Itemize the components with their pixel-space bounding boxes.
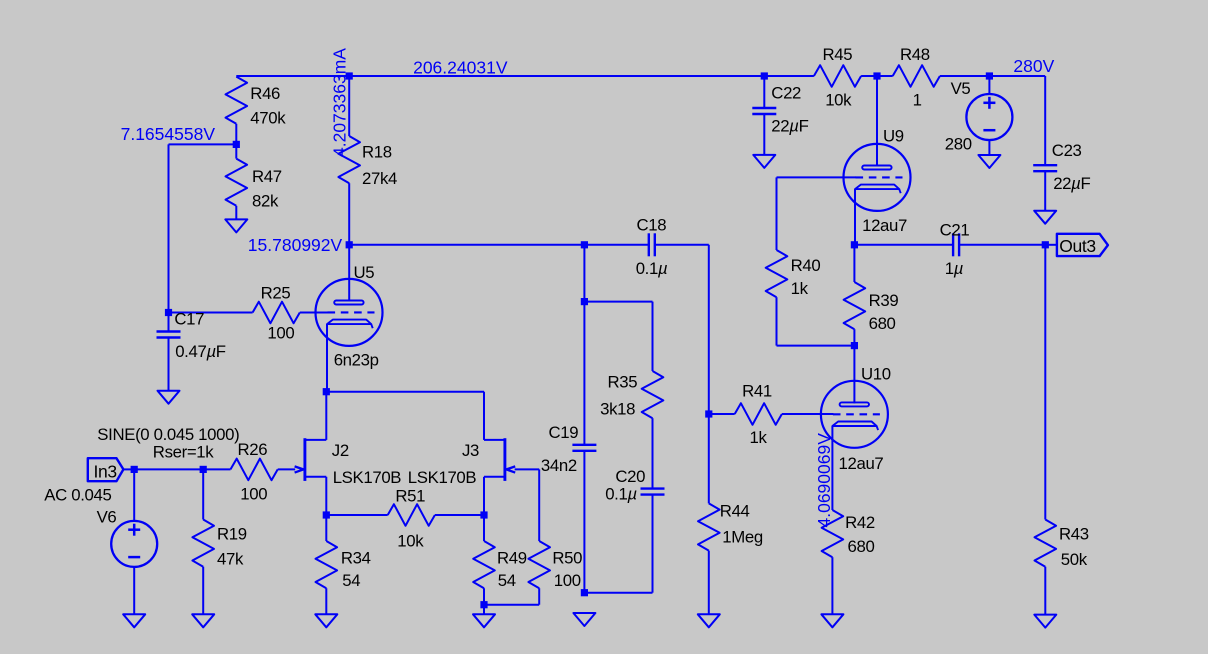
- capacitor C18: [636, 216, 668, 279]
- wire R51-J3src: [435, 514, 484, 516]
- svg-text:R25: R25: [261, 284, 291, 303]
- wire V5-gnd lead: [988, 140, 990, 155]
- wire corner-R44col: [708, 245, 710, 414]
- svg-text:680: 680: [848, 537, 875, 556]
- wire R50 top: [538, 469, 540, 541]
- junction C17: [165, 309, 172, 316]
- junction mid-U5: [346, 241, 353, 248]
- wire R19-R26: [203, 468, 230, 470]
- svg-text:54: 54: [498, 571, 516, 590]
- triode U5: [316, 263, 383, 370]
- resistor R40: [766, 250, 821, 346]
- svg-text:0.1µ: 0.1µ: [605, 485, 637, 504]
- resistor R45: [814, 45, 861, 110]
- wire V6 top lead: [133, 469, 135, 521]
- wire R50-R49 bottom: [484, 604, 539, 606]
- resistor R26: [231, 440, 278, 504]
- capacitor C17: [157, 310, 226, 362]
- svg-text:C18: C18: [637, 216, 667, 235]
- wire 7.16V horizontal: [169, 143, 237, 145]
- svg-text:54: 54: [342, 571, 360, 590]
- resistor R47: [226, 144, 282, 219]
- svg-text:Out3: Out3: [1059, 236, 1096, 256]
- svg-text:470k: 470k: [250, 109, 286, 128]
- svg-text:R47: R47: [252, 167, 282, 186]
- svg-text:100: 100: [240, 485, 267, 504]
- svg-text:R35: R35: [608, 373, 638, 392]
- junction R41-R44: [705, 410, 712, 417]
- svg-text:12au7: 12au7: [839, 454, 884, 473]
- transistor J2: [295, 392, 402, 515]
- svg-text:R40: R40: [791, 256, 821, 275]
- wire C20 bottom: [584, 495, 652, 593]
- wire V6-gnd lead: [133, 567, 135, 615]
- svg-text:50k: 50k: [1061, 550, 1088, 569]
- transistor J3: [408, 438, 515, 515]
- svg-text:V6: V6: [97, 508, 117, 527]
- svg-text:J2: J2: [332, 441, 349, 460]
- resistor R43: [1035, 245, 1089, 615]
- node 280V label: [1013, 56, 1054, 76]
- wire R35-C20: [652, 418, 654, 488]
- wire R49-gnd: [483, 605, 485, 615]
- svg-text:R41: R41: [742, 382, 772, 401]
- svg-text:C21: C21: [940, 220, 970, 239]
- node 7.1654558V label: [121, 124, 216, 144]
- svg-text:R26: R26: [238, 440, 268, 459]
- junction R19 top: [200, 466, 207, 473]
- svg-text:R19: R19: [217, 525, 247, 544]
- svg-text:C20: C20: [615, 467, 645, 486]
- svg-text:0.1µ: 0.1µ: [636, 259, 668, 278]
- svg-text:15.780992V: 15.780992V: [248, 235, 343, 255]
- wire C18-corner: [655, 244, 709, 246]
- wire U9 plate lead: [876, 76, 878, 166]
- svg-text:R44: R44: [720, 502, 750, 521]
- wire C22 top lead: [763, 76, 765, 108]
- resistor R39: [844, 245, 899, 346]
- svg-text:R43: R43: [1059, 525, 1089, 544]
- resistor R42: [822, 510, 875, 614]
- wire 15.78V rail: [349, 244, 649, 246]
- svg-text:C19: C19: [549, 423, 579, 442]
- wire U10 plate lead: [853, 346, 855, 404]
- wire 206V rail: [236, 75, 814, 77]
- junction rail-R18: [346, 72, 353, 79]
- wire R40-U10plate: [777, 345, 855, 347]
- wire J2-J3 drain: [326, 392, 484, 440]
- ground V6: [123, 614, 145, 627]
- ground C22: [753, 155, 775, 168]
- capacitor C19: [541, 423, 597, 475]
- wire C21-Out3: [959, 244, 1045, 246]
- svg-text:R49: R49: [497, 549, 527, 568]
- svg-text:34n2: 34n2: [541, 456, 577, 475]
- wire V5 top lead: [988, 76, 990, 94]
- svg-text:U9: U9: [883, 126, 904, 145]
- svg-text:AC 0.045: AC 0.045: [44, 486, 111, 505]
- svg-text:22µF: 22µF: [771, 116, 808, 135]
- junction mid-C19: [581, 241, 588, 248]
- wire R35 top lead: [652, 302, 654, 371]
- wire In3 stub: [123, 468, 134, 470]
- resistor R51: [388, 487, 435, 551]
- wire U10 cathode lead: [831, 426, 833, 510]
- wire R39col-C21: [854, 244, 953, 246]
- ground R49: [473, 614, 495, 627]
- resistor R25: [253, 284, 300, 343]
- svg-text:27k4: 27k4: [362, 169, 397, 188]
- wire U9 cathode lead: [854, 189, 856, 245]
- svg-text:12au7: 12au7: [862, 216, 907, 235]
- svg-text:R34: R34: [341, 549, 371, 568]
- junction R49 bottom: [480, 601, 487, 608]
- svg-text:Rser=1k: Rser=1k: [153, 443, 214, 462]
- resistor R44: [698, 414, 763, 614]
- svg-text:R39: R39: [869, 291, 899, 310]
- svg-text:R46: R46: [250, 84, 280, 103]
- resistor R48: [893, 45, 940, 110]
- resistor R49: [473, 515, 527, 605]
- ground R43: [1034, 615, 1056, 628]
- text Rser: [153, 443, 214, 462]
- junction U5cath-J2: [323, 388, 330, 395]
- wire U5 cathode lead: [326, 324, 328, 392]
- svg-text:J3: J3: [462, 441, 479, 460]
- svg-text:C23: C23: [1052, 141, 1082, 160]
- wire 7.16V vertical: [168, 144, 170, 312]
- ground R34: [315, 614, 337, 627]
- wire R25-U5 grid: [300, 312, 329, 314]
- svg-text:LSK170B: LSK170B: [408, 468, 477, 487]
- svg-text:U5: U5: [354, 263, 375, 282]
- current label 4.2073363mA: [329, 48, 349, 157]
- wire U9 grid: [777, 176, 857, 178]
- svg-text:R45: R45: [823, 45, 853, 64]
- svg-text:R42: R42: [845, 513, 875, 532]
- svg-text:SINE(0 0.045 1000): SINE(0 0.045 1000): [97, 425, 239, 444]
- svg-text:4.2073363mA: 4.2073363mA: [329, 48, 349, 157]
- wire J2src-R51: [326, 514, 387, 516]
- junction C19-R35: [581, 298, 588, 305]
- capacitor C21: [940, 220, 970, 278]
- ground C23: [1034, 211, 1056, 224]
- capacitor C22: [752, 84, 808, 136]
- wire In3-R19: [134, 468, 203, 470]
- svg-text:1k: 1k: [791, 279, 809, 298]
- ground C19: [573, 613, 595, 626]
- svg-text:1k: 1k: [750, 428, 768, 447]
- svg-text:280V: 280V: [1013, 56, 1054, 76]
- junction J3 source: [480, 511, 487, 518]
- ground V5: [978, 155, 1000, 168]
- svg-text:6n23p: 6n23p: [334, 350, 379, 369]
- wire R45-R48: [861, 75, 893, 77]
- capacitor C20: [605, 467, 664, 504]
- svg-text:10k: 10k: [397, 532, 424, 551]
- junction R46-R47: [233, 141, 240, 148]
- junction rail-U9: [873, 72, 880, 79]
- svg-text:7.1654558V: 7.1654558V: [121, 124, 216, 144]
- svg-text:206.24031V: 206.24031V: [413, 58, 508, 78]
- svg-text:100: 100: [267, 324, 294, 343]
- svg-text:C22: C22: [771, 84, 801, 103]
- resistor R18: [338, 76, 397, 245]
- wire C17-gnd lead: [168, 338, 170, 391]
- voltage source V5: [945, 79, 1013, 154]
- svg-text:C17: C17: [174, 310, 204, 329]
- svg-text:R50: R50: [552, 549, 582, 568]
- junction Out3: [1042, 241, 1049, 248]
- wire R48-corner: [940, 75, 1045, 77]
- node 15.780992V label: [248, 235, 343, 255]
- wire C23-gnd lead: [1044, 171, 1046, 211]
- svg-text:10k: 10k: [825, 91, 852, 110]
- text AC 0.045: [44, 486, 111, 505]
- junction U10 plate: [851, 342, 858, 349]
- svg-text:LSK170B: LSK170B: [333, 468, 402, 487]
- text SINE: [97, 425, 239, 444]
- svg-text:47k: 47k: [217, 549, 244, 568]
- wire C19 lower: [583, 451, 585, 593]
- junction rail-V5: [986, 72, 993, 79]
- svg-text:U10: U10: [861, 365, 891, 384]
- triode U9: [844, 126, 911, 235]
- voltage label 4.0690069V: [814, 433, 834, 528]
- junction rail-C22: [761, 72, 768, 79]
- svg-text:22µF: 22µF: [1053, 174, 1090, 193]
- junction C19-C20: [581, 589, 588, 596]
- svg-text:280: 280: [945, 135, 972, 154]
- ground R42: [821, 614, 843, 627]
- svg-text:R18: R18: [362, 143, 392, 162]
- ground C17: [158, 391, 180, 404]
- svg-text:1: 1: [913, 91, 922, 110]
- wire C19 upper: [583, 245, 585, 302]
- resistor R50: [528, 541, 582, 605]
- ground R47: [225, 219, 247, 232]
- svg-text:4.0690069V: 4.0690069V: [814, 433, 834, 528]
- svg-text:R48: R48: [900, 45, 930, 64]
- junction U9cath-R39: [851, 241, 858, 248]
- wire R35 branch: [584, 301, 652, 303]
- junction In3-V6: [131, 466, 138, 473]
- resistor R46: [226, 77, 287, 145]
- resistor R19: [192, 469, 246, 614]
- svg-text:1µ: 1µ: [945, 259, 963, 278]
- ground R19: [192, 614, 214, 627]
- wire J3 gate: [515, 468, 540, 470]
- capacitor C23: [1033, 141, 1090, 193]
- wire U5 plate lead: [348, 245, 350, 302]
- wire Out3 stub: [1045, 244, 1057, 246]
- triode U10: [821, 365, 891, 474]
- resistor R34: [316, 515, 371, 614]
- junction J2 source: [323, 511, 330, 518]
- flag In3 port: [88, 458, 124, 481]
- svg-text:V5: V5: [951, 79, 971, 98]
- svg-text:In3: In3: [94, 462, 117, 482]
- svg-text:R51: R51: [395, 487, 425, 506]
- svg-text:0.47µF: 0.47µF: [175, 342, 226, 361]
- voltage source V6: [97, 508, 158, 567]
- svg-text:1Meg: 1Meg: [722, 528, 763, 547]
- svg-text:100: 100: [554, 571, 581, 590]
- wire R26-J2 gate: [278, 468, 296, 470]
- node 206.24031V label: [413, 58, 508, 78]
- wire C19 mid: [583, 302, 585, 445]
- wire R40 vertical: [776, 177, 778, 250]
- wire C17-R25: [169, 312, 253, 314]
- wire R41-U10: [782, 413, 834, 415]
- svg-text:3k18: 3k18: [600, 400, 635, 419]
- flag Out3 port: [1057, 234, 1108, 256]
- svg-text:680: 680: [869, 314, 896, 333]
- wire C23 top lead: [1044, 76, 1046, 165]
- resistor R41: [709, 382, 782, 448]
- ground R44: [698, 614, 720, 627]
- resistor R35: [600, 371, 663, 419]
- svg-text:82k: 82k: [252, 192, 279, 211]
- wire C22-gnd lead: [763, 114, 765, 155]
